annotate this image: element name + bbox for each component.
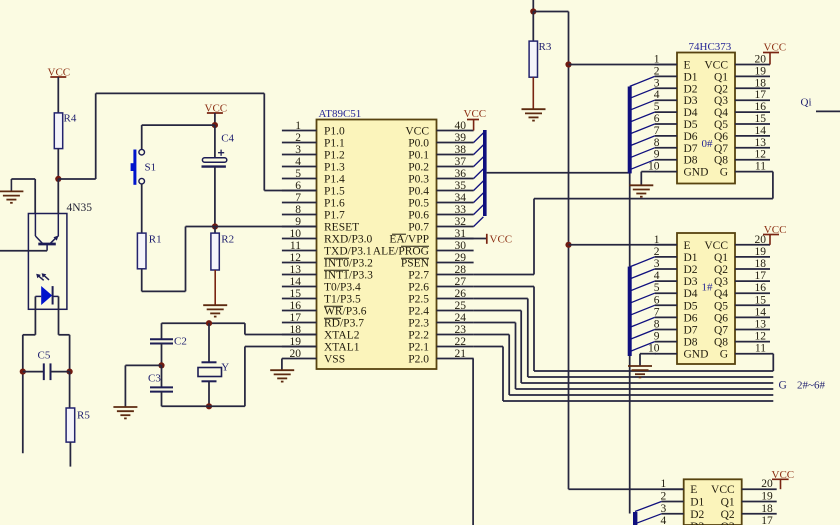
- bus entry P0.0: [474, 133, 484, 143]
- svg-text:VCC: VCC: [704, 60, 728, 72]
- svg-text:10: 10: [290, 228, 302, 240]
- svg-text:18: 18: [761, 503, 773, 515]
- latch U2 pin 12 Q8: [735, 159, 770, 161]
- svg-text:D4: D4: [684, 288, 698, 300]
- latch U2 pin 8 D7: [655, 147, 677, 149]
- latch U4 pin 19 Q1: [742, 501, 777, 503]
- svg-text:1: 1: [295, 120, 301, 132]
- svg-text:19: 19: [290, 336, 302, 348]
- svg-text:R5: R5: [77, 410, 90, 422]
- MCU pin 9 RESET: [282, 226, 317, 228]
- wire Qi stub: [816, 110, 840, 112]
- node crystal top: [206, 320, 212, 326]
- svg-text:23: 23: [455, 324, 467, 336]
- optocoupler U 4N35: [28, 214, 67, 310]
- svg-text:34: 34: [455, 192, 467, 204]
- svg-text:Q1: Q1: [714, 71, 728, 83]
- svg-text:D3: D3: [684, 95, 698, 107]
- svg-text:D1: D1: [684, 252, 698, 264]
- MCU pin 35 P0.4: [437, 190, 474, 192]
- svg-text:P0.6: P0.6: [408, 210, 429, 222]
- MCU pin 14 T0/P3.4: [282, 286, 317, 288]
- switch S1: [139, 149, 145, 155]
- svg-text:D5: D5: [684, 119, 698, 131]
- svg-text:16: 16: [755, 101, 767, 113]
- MCU pin 26 P2.5: [437, 298, 474, 300]
- svg-text:D8: D8: [684, 155, 698, 167]
- svg-text:D3: D3: [690, 521, 704, 525]
- bus entry latch U3 D1: [630, 257, 655, 267]
- latch U3 pin 13 Q7: [735, 329, 770, 331]
- svg-text:2: 2: [660, 491, 666, 503]
- latch U2 pin 10 GND: [655, 171, 677, 173]
- latch U3 pin 10 GND: [655, 353, 677, 355]
- svg-text:D1: D1: [684, 71, 698, 83]
- resistor R3: [532, 12, 534, 42]
- svg-text:32: 32: [455, 216, 467, 228]
- svg-text:21: 21: [455, 348, 467, 360]
- svg-text:17: 17: [755, 270, 767, 282]
- latch U3 pin 3 D2: [655, 268, 677, 270]
- svg-text:12: 12: [755, 149, 767, 161]
- wire XTAL2 net: [162, 322, 245, 324]
- svg-text:P2.1: P2.1: [408, 342, 429, 354]
- resistor R2: [214, 227, 216, 234]
- latch U3 pin 8 D7: [655, 329, 677, 331]
- svg-text:C5: C5: [38, 350, 51, 362]
- svg-text:13: 13: [290, 264, 302, 276]
- MCU pin 3 P1.2: [282, 154, 317, 156]
- svg-text:EA/VPP: EA/VPP: [389, 234, 429, 246]
- svg-text:Y: Y: [221, 362, 229, 374]
- op-amp U1 AT89C51 microcontroller: [317, 120, 437, 370]
- svg-text:19: 19: [761, 491, 773, 503]
- svg-text:Q5: Q5: [714, 119, 728, 131]
- MCU pin 31 EA/VPP: [437, 238, 474, 240]
- wire P2.5 (G 2#): [474, 298, 528, 300]
- svg-text:17: 17: [761, 515, 773, 525]
- wire emitter up to node: [57, 179, 59, 214]
- node C5 left: [20, 369, 26, 375]
- wire to ground (C2/C3): [125, 364, 161, 366]
- svg-text:VCC: VCC: [464, 108, 487, 120]
- bus entry latch U3 D6: [630, 317, 655, 327]
- bus entry latch U2 D5: [630, 124, 655, 134]
- MCU pin 32 P0.7: [437, 226, 474, 228]
- svg-text:8: 8: [654, 137, 660, 149]
- svg-text:9: 9: [295, 216, 301, 228]
- opto LED emission arrows: [38, 275, 44, 280]
- svg-text:S1: S1: [145, 162, 157, 174]
- latch U2 pin 7 D6: [655, 135, 677, 137]
- svg-text:G: G: [720, 349, 728, 361]
- svg-text:D1: D1: [690, 497, 704, 509]
- svg-text:Q7: Q7: [714, 325, 728, 337]
- svg-text:3: 3: [660, 503, 666, 515]
- latch U2 pin 19 Q1: [735, 75, 770, 77]
- latch U4 pin 1 E: [661, 488, 683, 490]
- ground (optocoupler collector): [10, 179, 12, 191]
- svg-text:P1.1: P1.1: [324, 138, 345, 150]
- svg-text:P1.0: P1.0: [324, 126, 345, 138]
- latch U3 pin 6 D5: [655, 304, 677, 306]
- svg-text:36: 36: [455, 168, 467, 180]
- svg-text:1: 1: [654, 54, 660, 66]
- wire E rail to latch U3 pin 1: [569, 244, 678, 246]
- MCU pin 36 P0.3: [437, 178, 474, 180]
- MCU pin 39 P0.0: [437, 142, 474, 144]
- MCU pin 19 XTAL1: [282, 346, 317, 348]
- bus entry P0.5: [474, 193, 484, 203]
- svg-text:P2.5: P2.5: [408, 294, 429, 306]
- svg-text:20: 20: [755, 54, 767, 66]
- svg-text:C3: C3: [148, 373, 161, 385]
- MCU pin 40 VCC: [437, 130, 474, 132]
- node C4/R2/reset: [212, 223, 218, 229]
- svg-text:1: 1: [654, 234, 660, 246]
- svg-text:17: 17: [755, 89, 767, 101]
- svg-text:P2.2: P2.2: [408, 330, 429, 342]
- MCU pin 15 T1/P3.5: [282, 298, 317, 300]
- bus entry latch U3 D7: [630, 330, 655, 340]
- svg-text:GND: GND: [684, 349, 709, 361]
- svg-text:13: 13: [755, 319, 767, 331]
- svg-text:7: 7: [654, 306, 660, 318]
- svg-text:RD/P3.7: RD/P3.7: [324, 318, 364, 330]
- bus entry latch U3 D4: [630, 293, 655, 303]
- svg-text:Q6: Q6: [714, 131, 728, 143]
- MCU pin 8 P1.7: [282, 214, 317, 216]
- svg-text:11: 11: [755, 161, 766, 173]
- MCU pin 37 P0.2: [437, 166, 474, 168]
- bus entry latch U2 D1: [630, 76, 655, 86]
- svg-text:Q2: Q2: [714, 264, 728, 276]
- svg-text:G: G: [779, 380, 787, 392]
- wire P2.2 (G 5#): [474, 334, 510, 336]
- MCU pin 25 P2.4: [437, 310, 474, 312]
- svg-text:39: 39: [455, 132, 467, 144]
- resistor R1: [137, 233, 146, 269]
- svg-text:AT89C51: AT89C51: [319, 108, 362, 120]
- svg-text:1#: 1#: [702, 282, 714, 294]
- wire R5 bottom stub: [69, 442, 71, 467]
- opto transistor emitter with arrow: [51, 238, 56, 243]
- svg-text:5: 5: [654, 101, 660, 113]
- svg-text:7: 7: [654, 125, 660, 137]
- svg-text:4: 4: [654, 89, 660, 101]
- svg-text:25: 25: [455, 300, 467, 312]
- svg-text:3: 3: [295, 144, 301, 156]
- svg-text:38: 38: [455, 144, 467, 156]
- MCU pin 6 P1.5: [282, 190, 317, 192]
- svg-text:7: 7: [295, 192, 301, 204]
- svg-text:WR/P3.6: WR/P3.6: [324, 306, 367, 318]
- svg-text:6: 6: [654, 294, 660, 306]
- op-amp U2 74HC373 latch: [677, 53, 735, 184]
- wire R2 to ground: [214, 270, 216, 305]
- svg-text:Q7: Q7: [714, 143, 728, 155]
- wire R1 bottom L to reset net: [141, 269, 143, 292]
- svg-text:4: 4: [654, 270, 660, 282]
- bus entry P0.6: [474, 205, 484, 215]
- MCU pin 33 P0.6: [437, 214, 474, 216]
- svg-text:4: 4: [295, 156, 301, 168]
- svg-text:P0.5: P0.5: [408, 198, 429, 210]
- latch U3 pin 1 E: [655, 244, 677, 246]
- svg-text:2: 2: [654, 246, 660, 258]
- bus entry latch U2 D2: [630, 88, 655, 98]
- bus bar (latch U2): [628, 87, 632, 174]
- svg-text:74HC373: 74HC373: [689, 41, 732, 53]
- ground (C2/C3): [113, 406, 137, 408]
- svg-text:29: 29: [455, 252, 467, 264]
- latch U2 pin 2 D1: [655, 75, 677, 77]
- MCU pin 30 ALE/PROG: [437, 250, 474, 252]
- svg-text:D2: D2: [684, 83, 698, 95]
- crystal Y: [208, 323, 210, 362]
- svg-text:D6: D6: [684, 312, 698, 324]
- MCU pin 10 RXD/P3.0: [282, 238, 317, 240]
- latch U2 pin 16 Q4: [735, 111, 770, 113]
- MCU pin 4 P1.3: [282, 166, 317, 168]
- bus entry P0.2: [474, 157, 484, 167]
- svg-text:VCC: VCC: [704, 240, 728, 252]
- latch U3 pin 19 Q1: [735, 256, 770, 258]
- svg-text:P0.4: P0.4: [408, 186, 429, 198]
- MCU overlines (EA PROG PSEN INT0 INT1 WR RD): [392, 233, 406, 235]
- svg-text:Q2: Q2: [721, 509, 735, 521]
- svg-text:P1.2: P1.2: [324, 150, 345, 162]
- svg-text:P1.5: P1.5: [324, 186, 345, 198]
- wire reset net to MCU pin 9: [186, 226, 317, 228]
- node R3 top: [530, 8, 536, 14]
- svg-text:XTAL1: XTAL1: [324, 342, 360, 354]
- svg-text:30: 30: [455, 240, 467, 252]
- latch U2 pin 11 G: [735, 171, 770, 173]
- svg-text:R1: R1: [149, 234, 162, 246]
- wire base to left edge: [0, 250, 47, 252]
- wire P2.6 to latch U3 G: [474, 286, 534, 288]
- op-amp U3 74HC373 latch: [677, 233, 735, 364]
- svg-text:16: 16: [290, 300, 302, 312]
- svg-text:P2.4: P2.4: [408, 306, 429, 318]
- latch U2 pin 3 D2: [655, 87, 677, 89]
- wire P2.4 (G 3#): [474, 310, 522, 312]
- wire E rail to latch U2 pin 1: [569, 64, 678, 66]
- wire E rail to latch U4 pin 1: [569, 488, 684, 490]
- MCU pin 38 P0.1: [437, 154, 474, 156]
- node crystal bottom: [206, 403, 212, 409]
- svg-text:11: 11: [290, 240, 301, 252]
- svg-text:37: 37: [455, 156, 467, 168]
- latch U4 pin 2 D1: [661, 501, 683, 503]
- op-amp U4 74HC373 latch: [684, 479, 742, 525]
- latch U3 pin 11 G: [735, 353, 770, 355]
- svg-text:Q4: Q4: [714, 288, 728, 300]
- svg-text:P0.0: P0.0: [408, 138, 429, 150]
- MCU pin 23 P2.2: [437, 334, 474, 336]
- svg-text:35: 35: [455, 180, 467, 192]
- svg-text:28: 28: [455, 264, 467, 276]
- bus entry latch U2 D8: [630, 160, 655, 170]
- svg-text:T1/P3.5: T1/P3.5: [324, 294, 361, 306]
- svg-text:18: 18: [290, 324, 302, 336]
- bus bar (latch U3): [628, 267, 632, 356]
- latch U4 pin 18 Q2: [742, 513, 777, 515]
- MCU pin 7 P1.6: [282, 202, 317, 204]
- bus entry P0.7: [474, 217, 484, 227]
- svg-text:VCC: VCC: [490, 234, 513, 246]
- MCU pin 13 INT1/P3.3: [282, 274, 317, 276]
- svg-text:11: 11: [755, 343, 766, 355]
- svg-text:E: E: [684, 240, 691, 252]
- power symbol VCC (MCU pin 40): [473, 120, 475, 131]
- svg-text:R3: R3: [539, 41, 552, 53]
- svg-text:P1.3: P1.3: [324, 162, 345, 174]
- svg-text:27: 27: [455, 276, 467, 288]
- svg-text:D2: D2: [684, 264, 698, 276]
- svg-text:Q3: Q3: [721, 521, 735, 525]
- ground (latch U2 GND): [641, 171, 656, 173]
- wire S1 bottom to R1: [141, 184, 143, 233]
- wire S1 top rail: [142, 124, 215, 126]
- wire E rail (vertical): [568, 12, 570, 490]
- svg-text:14: 14: [755, 125, 767, 137]
- svg-text:Q3: Q3: [714, 95, 728, 107]
- bus entry latch U3 D2: [630, 269, 655, 279]
- latch U2 pin 18 Q2: [735, 87, 770, 89]
- svg-text:15: 15: [755, 113, 767, 125]
- wire XTAL1 net: [162, 405, 245, 407]
- svg-text:Q4: Q4: [714, 107, 728, 119]
- wire P2.7 to latch U2 G: [474, 274, 534, 276]
- svg-text:T0/P3.4: T0/P3.4: [324, 282, 361, 294]
- svg-text:9: 9: [654, 149, 660, 161]
- svg-text:RXD/P3.0: RXD/P3.0: [324, 234, 372, 246]
- node E rail / latch U3: [565, 242, 571, 248]
- latch U4 pin 3 D2: [661, 513, 683, 515]
- svg-text:P2.3: P2.3: [408, 318, 429, 330]
- power symbol VCC (MCU pin 31 EA): [437, 238, 487, 240]
- MCU pin 2 P1.1: [282, 142, 317, 144]
- opto transistor collector: [34, 214, 36, 237]
- svg-text:D3: D3: [684, 276, 698, 288]
- svg-text:D2: D2: [690, 509, 704, 521]
- latch U3 pin 2 D1: [655, 256, 677, 258]
- svg-text:P1.7: P1.7: [324, 210, 345, 222]
- svg-text:P0.2: P0.2: [408, 162, 429, 174]
- svg-text:5: 5: [295, 168, 301, 180]
- svg-text:16: 16: [755, 282, 767, 294]
- svg-text:18: 18: [755, 258, 767, 270]
- MCU pin 5 P1.4: [282, 178, 317, 180]
- latch U2 pin 9 D8: [655, 159, 677, 161]
- latch U3 pin 7 D6: [655, 316, 677, 318]
- MCU pin 24 P2.3: [437, 322, 474, 324]
- svg-text:D8: D8: [684, 337, 698, 349]
- svg-text:0#: 0#: [702, 138, 714, 150]
- svg-text:C2: C2: [174, 336, 187, 348]
- node E rail / latch U2: [565, 61, 571, 67]
- svg-text:Q2: Q2: [714, 83, 728, 95]
- svg-text:XTAL2: XTAL2: [324, 330, 360, 342]
- MCU pin 29 PSEN: [437, 262, 474, 264]
- svg-text:GND: GND: [684, 167, 709, 179]
- svg-text:2: 2: [295, 132, 301, 144]
- bus entry P0.4: [474, 181, 484, 191]
- latch U2 pin 13 Q7: [735, 147, 770, 149]
- resistor R5: [69, 372, 71, 408]
- latch U2 pin 15 Q5: [735, 123, 770, 125]
- svg-text:19: 19: [755, 246, 767, 258]
- latch U2 pin 14 Q6: [735, 135, 770, 137]
- svg-text:P1.4: P1.4: [324, 174, 345, 186]
- bus entry latch U2 D4: [630, 112, 655, 122]
- svg-text:Q8: Q8: [714, 155, 728, 167]
- svg-text:14: 14: [755, 306, 767, 318]
- svg-text:C4: C4: [221, 133, 234, 145]
- bus trunk to latches: [487, 172, 630, 174]
- svg-text:RESET: RESET: [324, 222, 359, 234]
- svg-text:3: 3: [654, 77, 660, 89]
- svg-text:Q6: Q6: [714, 312, 728, 324]
- svg-text:D5: D5: [684, 300, 698, 312]
- wire LED cathode down-right branch: [59, 334, 70, 336]
- svg-text:26: 26: [455, 288, 467, 300]
- bus bar P0 (MCU side): [483, 130, 487, 216]
- MCU pin 12 INT0/P3.2: [282, 262, 317, 264]
- svg-text:22: 22: [455, 336, 467, 348]
- MCU pin 18 XTAL2: [282, 334, 317, 336]
- MCU pin 16 WR/P3.6: [282, 310, 317, 312]
- bus entry latch U3 D8: [630, 342, 655, 352]
- svg-text:VSS: VSS: [324, 354, 345, 366]
- svg-text:20: 20: [290, 348, 302, 360]
- latch U3 pin 16 Q4: [735, 292, 770, 294]
- svg-text:P2.6: P2.6: [408, 282, 429, 294]
- svg-text:8: 8: [654, 319, 660, 331]
- MCU pin 28 P2.7: [437, 274, 474, 276]
- latch U3 pin 17 Q3: [735, 280, 770, 282]
- MCU pin 11 TXD/P3.1: [282, 250, 317, 252]
- ground (R2): [203, 304, 227, 306]
- latch U2 pin 5 D4: [655, 111, 677, 113]
- wire node to top rail riser: [58, 178, 95, 180]
- wire R3 to ground: [532, 77, 534, 109]
- wire top rail to MCU P1.5: [96, 92, 265, 94]
- power symbol VCC (latch U4 pin 20): [780, 479, 782, 489]
- svg-text:Q1: Q1: [714, 252, 728, 264]
- svg-text:18: 18: [755, 77, 767, 89]
- svg-text:2: 2: [654, 65, 660, 77]
- svg-text:2#~6#: 2#~6#: [797, 380, 825, 392]
- bus entry latch U3 D5: [630, 305, 655, 315]
- opto LED cathode lead: [58, 296, 60, 334]
- wire LED anode down-left branch: [23, 334, 36, 336]
- svg-text:VCC: VCC: [711, 484, 735, 496]
- bus entry latch U4 D2: [635, 514, 661, 524]
- svg-text:15: 15: [290, 288, 302, 300]
- svg-text:Qi: Qi: [801, 97, 812, 109]
- svg-text:Q3: Q3: [714, 276, 728, 288]
- opto LED anode lead: [34, 296, 36, 334]
- svg-text:6: 6: [654, 113, 660, 125]
- svg-text:P2.0: P2.0: [408, 354, 429, 366]
- latch U3 pin 18 Q2: [735, 268, 770, 270]
- wire P2.3 (G 4#): [474, 322, 516, 324]
- latch U3 pin 5 D4: [655, 292, 677, 294]
- node C2/C3/ground: [158, 362, 164, 368]
